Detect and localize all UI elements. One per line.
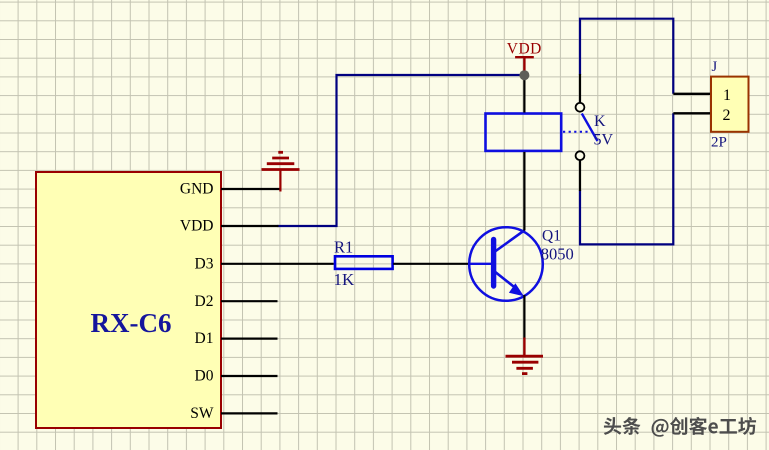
relay dotted link bbox=[563, 131, 591, 133]
relay switch pin bottom bbox=[579, 160, 581, 191]
wire: connector pin2 loop to switch bottom bbox=[580, 113, 673, 244]
svg-text:8050: 8050 bbox=[541, 245, 574, 264]
Q1 emitter stroke with arrow bbox=[495, 272, 515, 288]
svg-text:D1: D1 bbox=[195, 330, 214, 347]
svg-text:1K: 1K bbox=[334, 270, 356, 289]
svg-text:K: K bbox=[594, 113, 606, 130]
power symbol VDD bbox=[507, 41, 542, 72]
connector J pin 1 stub bbox=[673, 93, 711, 95]
relay switch contact bottom bbox=[576, 151, 585, 160]
resistor R1 box bbox=[335, 256, 393, 269]
Q1 base bar bbox=[491, 240, 496, 287]
svg-text:J: J bbox=[712, 59, 718, 75]
svg-text:5V: 5V bbox=[594, 131, 614, 148]
svg-text:VDD: VDD bbox=[507, 41, 542, 58]
wire: resistor to transistor base bbox=[393, 263, 470, 265]
svg-text:D3: D3 bbox=[195, 255, 214, 272]
transistor Q1 circle bbox=[469, 227, 543, 301]
component U1 RX-C6 body bbox=[36, 172, 221, 428]
svg-text:Q1: Q1 bbox=[542, 227, 561, 244]
pin wire SW bbox=[221, 412, 278, 414]
pin wire GND bbox=[221, 188, 281, 190]
svg-text:GND: GND bbox=[180, 181, 214, 198]
svg-text:1: 1 bbox=[723, 87, 731, 104]
watermark 头条 @创客e工坊 bbox=[604, 417, 756, 437]
svg-text:VDD: VDD bbox=[180, 218, 214, 235]
wire VDD net: chip VDD pin to junction bbox=[278, 75, 525, 226]
pin wire D0 bbox=[221, 375, 278, 377]
svg-text:SW: SW bbox=[190, 405, 214, 422]
connector J pin 2 stub bbox=[673, 112, 711, 114]
wire: emitter to ground bbox=[523, 295, 525, 339]
svg-text:2P: 2P bbox=[711, 135, 727, 151]
ground symbol at GND pin (rotated up) bbox=[262, 152, 300, 191]
wire/pins: junction through coil to collector bbox=[523, 75, 525, 113]
pin wire D1 bbox=[221, 338, 278, 340]
relay armature bbox=[582, 114, 598, 142]
relay switch pin top bbox=[579, 74, 581, 103]
pin wire D3 (to resistor R1) bbox=[221, 263, 334, 265]
pin wire VDD bbox=[221, 225, 279, 227]
svg-text:2: 2 bbox=[723, 107, 731, 124]
svg-text:D2: D2 bbox=[195, 293, 214, 310]
relay switch contact top bbox=[576, 103, 585, 112]
ground symbol at emitter bbox=[506, 338, 544, 374]
Q1 collector stroke bbox=[495, 230, 525, 251]
svg-text:D0: D0 bbox=[195, 368, 214, 385]
pin wire D2 bbox=[221, 300, 278, 302]
connector J body bbox=[711, 77, 749, 132]
svg-text:R1: R1 bbox=[334, 237, 353, 256]
relay K coil box bbox=[486, 114, 562, 151]
junction node dot bbox=[519, 70, 529, 80]
svg-text:RX-C6: RX-C6 bbox=[91, 308, 172, 338]
wire: switch top to loop top bbox=[580, 19, 673, 94]
